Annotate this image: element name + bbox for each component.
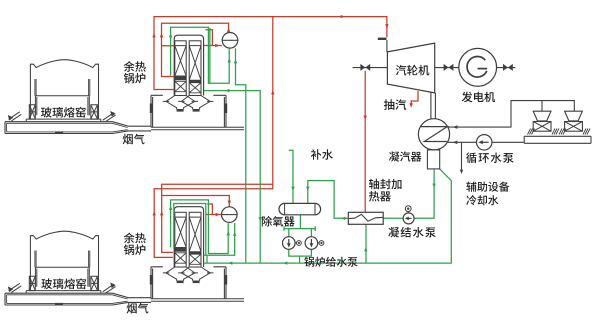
circulating water pump 循环水泵 xyxy=(477,135,492,150)
basin hatch marks xyxy=(559,129,566,135)
cooling tower 2 xyxy=(565,111,583,121)
cooling tower supply pipe xyxy=(448,101,574,128)
steam pipe: boiler1 circulation loop to drum1 xyxy=(162,23,229,76)
generator right shaft stub xyxy=(497,67,516,69)
condensate pipe: hotwell to pump to gland heater xyxy=(383,169,434,218)
label 冷却水 xyxy=(466,195,498,205)
water pipe: drum1 downcomer to bottom header xyxy=(236,48,246,263)
steam drum 1 xyxy=(222,33,238,49)
deaerator outlet and feed pump suction piping xyxy=(284,215,315,237)
main steam pipe: boiler1 to header to turbine xyxy=(154,17,387,90)
label 余热锅炉 2 xyxy=(124,233,146,244)
water pipe: boiler2 left riser loop to drum2 xyxy=(171,200,229,255)
label 循环水泵 xyxy=(466,153,513,164)
label 补水 xyxy=(311,149,333,160)
label 轴封加 xyxy=(369,179,402,190)
feed pump discharge piping xyxy=(289,249,312,263)
deaerator 除氧器 xyxy=(279,203,321,214)
basin hatch marks xyxy=(552,129,559,135)
label 烟气 2 xyxy=(127,303,149,314)
steam turbine 汽轮机 xyxy=(387,43,434,93)
water pipe: drum2 downcomer into boiler2 xyxy=(204,223,235,263)
label 凝汽器 xyxy=(389,151,421,161)
label 烟气 1 xyxy=(123,134,145,145)
basin hatch marks xyxy=(528,129,535,135)
cooling tower 1 xyxy=(533,111,551,121)
steam pipe: boiler2 outlet to drum2 inlet xyxy=(206,204,222,215)
steam pipe: boiler2 circulation loop xyxy=(162,184,273,252)
glass furnace and waste-heat boiler group 2 xyxy=(5,207,244,305)
label 抽汽 xyxy=(384,99,406,110)
steam pipe: boiler1 outlet to drum1 inlet xyxy=(204,30,222,46)
gland heater drain pipe xyxy=(365,224,367,263)
label xyxy=(124,73,146,84)
steam pipe: boiler2 to main header riser xyxy=(154,17,273,258)
label 锅炉给水泵 xyxy=(304,257,357,267)
boiler feed pump 1 xyxy=(283,237,296,250)
cooling tower basin xyxy=(524,136,591,143)
condensate/feedwater bottom header to hotwell xyxy=(204,169,452,264)
extraction steam pipe (抽汽) xyxy=(411,91,418,104)
label 汽轮机 xyxy=(396,65,430,76)
glass furnace and waste-heat boiler group 1 xyxy=(5,35,244,133)
gland steam pipe: turbine to gland heater xyxy=(364,71,366,213)
condenser 凝汽器 xyxy=(418,119,449,150)
condensate pump vent xyxy=(407,212,409,213)
generator 发电机 xyxy=(459,48,497,86)
label 玻璃熔窑 1 xyxy=(41,107,86,118)
makeup water pipe (补水) xyxy=(289,150,293,203)
label 热器 xyxy=(369,191,391,202)
water pipe: boiler1 left riser loop to drum1 xyxy=(171,27,230,83)
gland steam heater 轴封加热器 xyxy=(348,212,383,224)
label 除氧器 xyxy=(262,216,295,227)
label xyxy=(124,244,146,255)
condensate pipe into deaerator xyxy=(308,181,349,219)
main steam stop valve xyxy=(378,38,387,40)
label 凝结水泵 xyxy=(388,227,435,238)
boiler feed pump 2 xyxy=(305,237,318,250)
steam drum 2 xyxy=(222,207,238,223)
label 玻璃熔窑 2 xyxy=(41,278,86,289)
steam pipe: boiler2 drum2 top feed xyxy=(162,196,230,207)
feedwater pipe into boiler1 economizer xyxy=(204,91,261,263)
circulating water pipes xyxy=(447,141,524,143)
shaft coupling turbine-generator xyxy=(435,67,459,69)
auxiliary equipment cooling water stub xyxy=(461,142,463,170)
label 余热锅炉 1 xyxy=(124,61,146,72)
turbine shaft left stub and gland xyxy=(353,67,388,69)
condenser hotwell xyxy=(427,150,439,169)
label 发电机 xyxy=(462,92,495,103)
turbine exhaust duct to condenser xyxy=(431,93,436,119)
basin hatch marks xyxy=(583,129,590,135)
label 辅助设备 xyxy=(466,182,509,192)
condensate pump 凝结水泵 xyxy=(403,213,414,224)
